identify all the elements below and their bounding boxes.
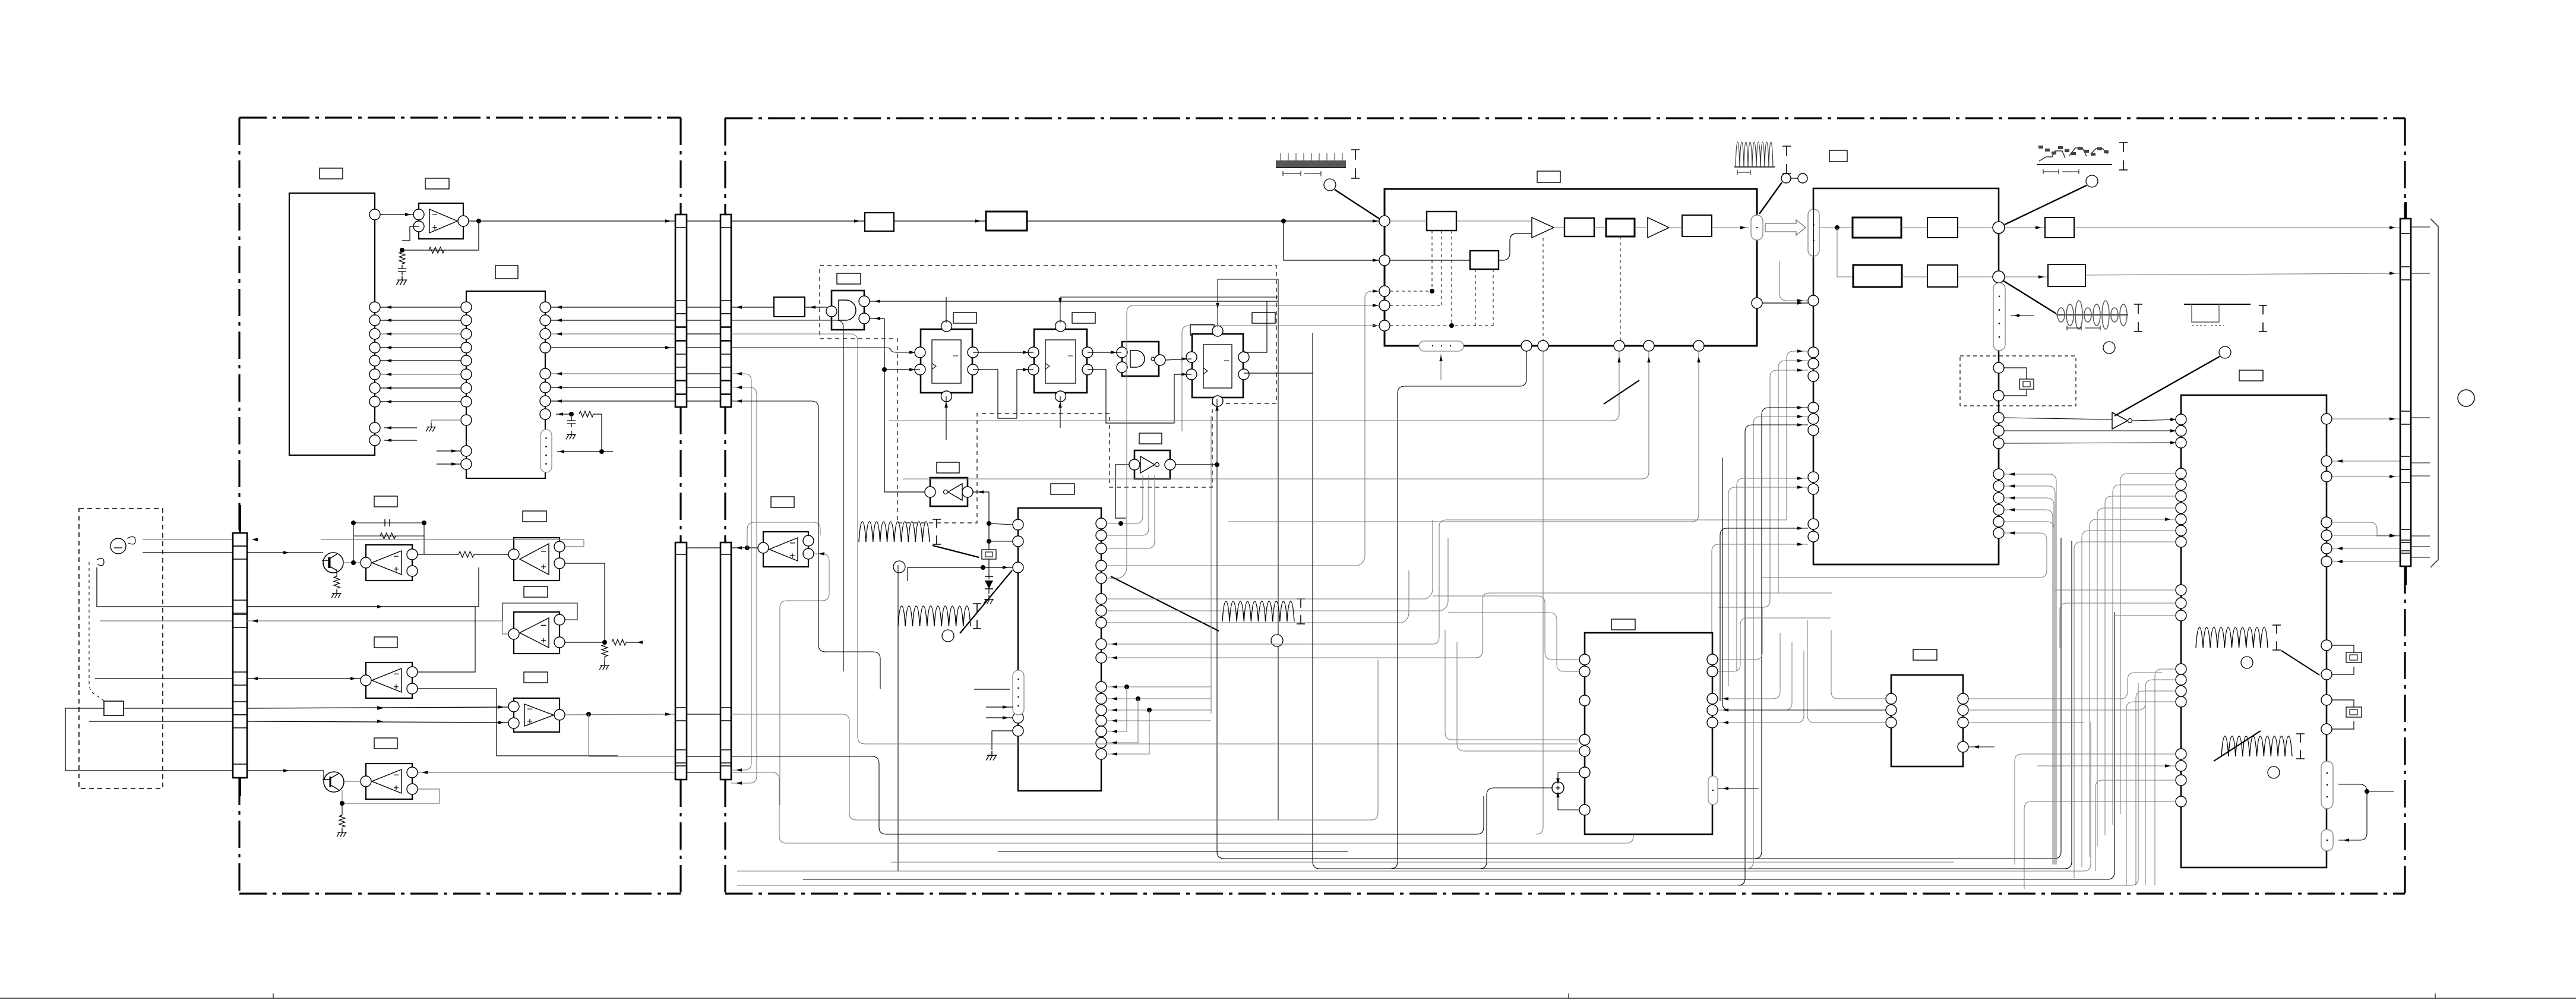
- wire U2a out: [469, 220, 675, 222]
- resistor R3: [399, 252, 405, 264]
- label U6: [1139, 433, 1162, 444]
- pointer S1: [933, 545, 979, 557]
- left block border left: [238, 118, 240, 894]
- label U3b: [524, 672, 548, 683]
- junction J1: [1993, 222, 2005, 234]
- wire d ff1: [909, 351, 915, 354]
- label FF1: [953, 313, 976, 323]
- wire j2 h6: [2005, 276, 2048, 277]
- dashed logic outline: [820, 266, 1276, 523]
- feedback trunk: [1278, 279, 1279, 820]
- IC3 pill stub: [974, 689, 1010, 690]
- IC4 pill feed: [1440, 354, 1442, 380]
- wire h2 j1: [1958, 227, 1993, 228]
- bars gap wires lower: [687, 547, 720, 548]
- wire r4 out: [1712, 227, 1749, 228]
- label G1: [837, 273, 861, 284]
- junction riser mid: [1998, 234, 1999, 271]
- wire U7 in: [731, 547, 758, 548]
- IC7 pill wire: [1718, 788, 1759, 789]
- wire p947 long: [1107, 291, 1379, 566]
- U2a feedback: [402, 221, 479, 250]
- U3a fb loop: [502, 603, 577, 634]
- trunk l6: [803, 612, 2114, 879]
- Q2 emitter resistor: [342, 803, 343, 815]
- IC5 left pill: [1808, 209, 1819, 256]
- IC2 gnd pin wire: [431, 420, 461, 423]
- wire head shield: [97, 567, 233, 607]
- right block border right: [2404, 118, 2406, 894]
- crystal X3: [2332, 645, 2354, 674]
- pointer W1: [1335, 190, 1379, 219]
- flip-flop FF3: [1192, 334, 1243, 398]
- trunk l7: [737, 683, 2138, 885]
- IC3 stub in2: [986, 717, 1013, 718]
- U4a out wires: [247, 607, 475, 672]
- ground g2: [567, 431, 576, 435]
- IC8 pins right: [1958, 693, 1968, 704]
- IC5 pins left: [1808, 295, 1819, 306]
- waveform W3: [2037, 164, 2112, 165]
- row feeds down7: [731, 401, 880, 689]
- pointer IC4pin: [1604, 380, 1639, 404]
- wire head to connector hot: [143, 539, 233, 540]
- trunk l2: [731, 756, 1484, 834]
- op-amp U3b: [514, 698, 560, 732]
- IC6 left feeds B: [2120, 474, 2176, 814]
- wire 1142 row: [247, 678, 361, 679]
- box IC4 r2: [1564, 218, 1594, 236]
- IC5 feed g: [1737, 478, 1808, 671]
- IC5 col pins: [1993, 412, 2004, 423]
- AND gate G1: [832, 291, 864, 330]
- trunk l8: [998, 851, 1348, 852]
- cassette dashed box: [79, 509, 163, 788]
- IC7 feed 1130: [1448, 613, 1579, 671]
- connector CN3a: [675, 542, 687, 780]
- wire ff3 set: [1218, 279, 1278, 327]
- IC6 left feeds D: [2155, 669, 2176, 885]
- wire p1084: [1107, 520, 1787, 644]
- inverter U8: [2112, 412, 2128, 429]
- U4b pins: [361, 776, 371, 787]
- IC3 box: [1018, 508, 1101, 791]
- U1a fb loop: [353, 523, 424, 563]
- col feed 878: [2004, 522, 2054, 851]
- bars gap wires upper: [687, 220, 720, 222]
- wire ff1 q ff2: [973, 352, 1033, 353]
- IC7 out 1110: [1718, 607, 1762, 660]
- box H6: [2048, 264, 2085, 286]
- R4 corner: [557, 414, 613, 452]
- pointer S4: [2281, 651, 2319, 675]
- box H2: [1927, 217, 1958, 238]
- wire G1 out: [731, 307, 774, 308]
- IC7 pill: [1708, 776, 1718, 805]
- connector CN2a: [675, 214, 687, 407]
- wire in548: [1182, 326, 1379, 431]
- IC8 pins left: [1886, 693, 1897, 704]
- diode D1: [988, 576, 990, 594]
- IC3 pill: [1013, 670, 1024, 715]
- wire h4 h5: [1902, 276, 1927, 277]
- IC7 feed 1110: [1433, 596, 1579, 660]
- label U5: [937, 462, 959, 473]
- IC4 pins left: [1379, 216, 1390, 226]
- wire reel sense: [95, 678, 233, 679]
- label G2: [1190, 324, 1214, 335]
- right block border bottom: [725, 892, 2405, 894]
- IC3 pins left: [1013, 519, 1023, 530]
- inverter U6: [1134, 450, 1170, 479]
- IC6 pins left: [2176, 414, 2186, 425]
- IC5 feed j: [1712, 544, 1808, 716]
- wire col 760: [2004, 443, 2181, 443]
- box IC4 r4: [1682, 215, 1712, 236]
- connector CN4: [2400, 219, 2411, 566]
- IC4 pill bottom: [1419, 341, 1464, 351]
- resistor R5 fb: [380, 533, 396, 539]
- CN1 stub bottom: [239, 778, 241, 796]
- right block border top: [725, 117, 2405, 119]
- IC4 pins bottom: [1521, 340, 1532, 351]
- row feeds down2: [731, 320, 843, 671]
- waveform W5: [2184, 304, 2251, 305]
- waveform W4: [2056, 314, 2128, 316]
- ground g1: [397, 276, 407, 280]
- U2a pins: [413, 209, 424, 220]
- U2b pins: [508, 549, 519, 560]
- testpoint S3: [1271, 635, 1283, 646]
- amp A1: [1532, 217, 1554, 238]
- trunk l5: [737, 722, 2091, 871]
- label U7: [771, 497, 794, 507]
- inverter U5: [930, 478, 968, 506]
- right block border left: [724, 118, 726, 894]
- wire U6 in riser: [1115, 465, 1129, 518]
- sum wires: [1480, 772, 1579, 869]
- IC7 out 1130: [1718, 618, 1831, 671]
- IC8 stub: [1968, 746, 1995, 747]
- wire col 736: [2004, 430, 2181, 431]
- wire clk ff1: [884, 369, 920, 370]
- trunk s2: [897, 565, 899, 871]
- IC6 right wires cn: [2332, 419, 2400, 561]
- box H3: [2045, 217, 2074, 238]
- IC1 stub pins: [384, 428, 417, 440]
- IC6 left feeds C: [2055, 590, 2176, 648]
- label IC6: [2239, 370, 2263, 381]
- IC5 feed a: [1787, 351, 1808, 520]
- pointer W3: [2005, 185, 2087, 225]
- label IC3: [1051, 484, 1074, 494]
- pointer S3: [1111, 576, 1219, 631]
- IC8 box: [1891, 675, 1963, 766]
- op-amp U3a: [514, 612, 560, 654]
- label IC2: [495, 266, 518, 279]
- wire G1 in2: [870, 318, 884, 319]
- IC4 box: [1385, 189, 1757, 346]
- IC4 pin arrows: [1373, 289, 1379, 293]
- IC5 top link: [1813, 188, 1999, 256]
- trunk l1: [731, 660, 1378, 820]
- IC6 pill1: [2321, 761, 2333, 809]
- wire p1003: [1107, 520, 1433, 599]
- IC3 harness bundle: [1107, 416, 1211, 721]
- IC4 out pill: [1751, 215, 1763, 240]
- wire fb net: [565, 563, 605, 641]
- left block border right: [679, 118, 681, 894]
- IC2 bus wires: [380, 307, 461, 308]
- label IC4: [1537, 171, 1560, 182]
- U4a pins: [361, 675, 371, 686]
- wire g2 in2: [1121, 367, 1174, 423]
- sum node: [1552, 782, 1564, 794]
- label IC5: [1829, 150, 1847, 162]
- label U2b: [523, 511, 546, 522]
- IC5 feed 591: [1787, 219, 1808, 351]
- IC4 dashed r5: [1475, 269, 1493, 326]
- IC5 feed f: [1738, 425, 1808, 885]
- wire u8 out: [2132, 419, 2181, 421]
- resistor R8: [612, 639, 626, 645]
- IC3 stub in1: [986, 706, 1013, 708]
- IC7 box: [1585, 633, 1712, 834]
- crystal X4: [2332, 700, 2354, 729]
- wire U2a plus in: [402, 226, 419, 241]
- testpoint W2 pair: [1781, 173, 1791, 183]
- label U4a: [374, 637, 397, 648]
- IC8 feeds: [1807, 620, 1886, 723]
- IC4 right pin: [1752, 298, 1762, 308]
- IC2 right bus: [551, 307, 675, 308]
- wire U5 out down: [973, 492, 989, 523]
- wire R6 to U2b: [474, 554, 508, 555]
- op-amp U2b: [514, 538, 560, 581]
- row2 riser: [1837, 228, 1853, 277]
- IC3 harness drop3: [1107, 710, 1149, 754]
- IC7 feed 1264: [1457, 642, 1579, 751]
- row1 y383: [1819, 227, 1853, 228]
- label Q1: [374, 496, 397, 507]
- U3b out: [565, 714, 675, 715]
- testpoint S4: [2241, 657, 2253, 668]
- wire p1107: [1107, 593, 1832, 658]
- IC1 pins right: [369, 209, 380, 220]
- wire p967 stub: [1107, 305, 1379, 578]
- head jack circle: [110, 538, 126, 554]
- wire U6 out: [1175, 464, 1217, 465]
- wire G1 in1 long: [870, 301, 1278, 302]
- capacitor C4 fb: [385, 519, 390, 526]
- U3b pins: [508, 701, 519, 712]
- link arrow big: [1765, 220, 1806, 235]
- wire U3a out: [565, 642, 605, 643]
- squiggle W-S4: [2196, 627, 2268, 648]
- wire u8 in: [2004, 418, 2112, 419]
- col feed 897: [1762, 533, 2047, 578]
- junction J2: [1993, 271, 2005, 283]
- wire motor drive: [124, 708, 233, 709]
- IC7 feed 1245: [1445, 630, 1579, 740]
- wire ff2 set: [1060, 297, 1278, 323]
- IC6 pins right: [2321, 414, 2332, 424]
- IC1 tuner: [289, 193, 375, 455]
- waveform W1: [1276, 160, 1346, 168]
- wire j1 h3: [2005, 227, 2045, 228]
- IC7 pins right: [1707, 654, 1718, 665]
- wire U5 in: [924, 491, 925, 493]
- CN4 stub bottom: [2404, 566, 2407, 585]
- wire row372 c: [1027, 220, 1379, 222]
- label IC7: [1611, 619, 1635, 630]
- head coil loop: [97, 537, 135, 566]
- testpoint S5: [2268, 766, 2280, 778]
- wire Q2 to U4b: [344, 781, 361, 782]
- IC3 harness drop2: [1107, 699, 1138, 743]
- squiggle W-S5: [2221, 736, 2292, 756]
- Q1 emitter resistor: [336, 569, 337, 576]
- box H4: [1853, 265, 1902, 287]
- connector CN3b: [720, 542, 731, 780]
- U4b fb: [342, 789, 440, 803]
- transistor Q1: [323, 553, 343, 573]
- IC2 in stubs: [437, 451, 461, 464]
- IC7 pins left: [1579, 654, 1590, 665]
- xtal pins: [1993, 362, 2004, 373]
- op-amp U1a: [366, 545, 412, 581]
- wire h6 cn: [2085, 273, 2400, 275]
- box IC4 r5: [1470, 251, 1499, 269]
- Q2 base wire: [247, 770, 324, 771]
- wire motor return: [89, 721, 233, 722]
- flip-flop FF2: [1034, 329, 1087, 393]
- wire 1214 row: [247, 721, 508, 723]
- pointer S5: [2214, 731, 2261, 761]
- wire IC1 to U2a: [380, 214, 413, 215]
- resistor R6: [459, 551, 474, 557]
- amp A2: [1648, 217, 1669, 238]
- label IC8: [1913, 649, 1937, 660]
- row feeds down4: [731, 348, 915, 352]
- IC3 gnd pin: [992, 731, 1013, 750]
- testpoint W4: [2103, 342, 2115, 354]
- IC5 feed i: [1720, 528, 1808, 701]
- IC5 feed e: [1746, 417, 1808, 869]
- box G1 out: [774, 297, 805, 317]
- xtal drop: [1998, 400, 1999, 423]
- wire ff2 clk: [1017, 370, 1033, 418]
- wire ff3 q2: [1244, 373, 1313, 374]
- IC6 pill wires: [2338, 784, 2367, 840]
- wire ff3 clk riser: [1174, 374, 1191, 423]
- crystal X1: [988, 523, 990, 576]
- transistor Q2: [324, 772, 344, 792]
- wire g2 out ff3: [1165, 359, 1191, 360]
- label U2a: [425, 178, 449, 189]
- trunk t2: [1313, 333, 2072, 869]
- IC5 feed 506: [1780, 261, 1808, 301]
- wire ff1 q2 down: [973, 370, 1017, 418]
- IC5 feed d: [1755, 408, 1808, 859]
- resistor R4: [579, 411, 593, 417]
- wire p1043: [1107, 570, 1409, 623]
- resistor R9 gnd: [602, 645, 608, 657]
- wire xtal row: [908, 567, 1013, 568]
- col feed bundle: [2004, 474, 2056, 865]
- IC6 box: [2181, 395, 2327, 867]
- wire h1 h2: [1901, 227, 1927, 228]
- junction pill drop: [1998, 351, 1999, 365]
- R8 stub: [626, 642, 639, 643]
- CN4 stub top: [2404, 202, 2407, 219]
- squiggle W-S2: [898, 606, 971, 626]
- pointer W4: [2003, 280, 2056, 314]
- wire A1 r2: [1554, 227, 1564, 228]
- wire return gray: [100, 620, 233, 622]
- trunk l3: [731, 772, 1633, 843]
- U3b fb: [589, 714, 675, 756]
- testpoint W1: [1324, 179, 1336, 191]
- left block border bottom: [239, 892, 681, 894]
- IC4 row2 wire: [1390, 260, 1470, 261]
- IC4 bottom drops: [1390, 351, 1526, 869]
- IC3 harness drop1: [1107, 687, 1127, 731]
- testpoint S1: [893, 561, 905, 573]
- box H5: [1927, 265, 1958, 287]
- wire r2 r3: [1594, 227, 1606, 228]
- wire U2b lower: [247, 567, 479, 607]
- Q1 base wire: [247, 552, 323, 553]
- row feeds down3: [731, 334, 1578, 744]
- footer rule: [0, 993, 2576, 998]
- box H1: [1853, 217, 1901, 238]
- label Q2: [374, 738, 397, 749]
- trunk l9: [891, 862, 1954, 863]
- capacitor C3: [567, 417, 576, 427]
- IC4 dashed rows: [1390, 291, 1493, 326]
- IC7 feed 1179: [822, 700, 1579, 701]
- wire ff2 bottom: [1060, 396, 1061, 428]
- testpoint W3: [2086, 175, 2098, 187]
- squiggle W-S3: [1222, 601, 1294, 622]
- box IC4 r3: [1606, 219, 1635, 236]
- left block border top: [239, 116, 681, 118]
- wire a2 r4: [1669, 227, 1682, 228]
- IC8 outs: [1968, 673, 2162, 723]
- IC8 feed mid: [1722, 458, 1886, 710]
- clock riser: [884, 318, 925, 492]
- connector CN2b: [720, 214, 731, 407]
- row feeds down6: [731, 387, 757, 783]
- CN4 right stubs: [2411, 226, 2430, 228]
- dashed xtal box: [1960, 356, 2076, 406]
- wire row372 a: [731, 220, 865, 222]
- trunk clk: [1217, 399, 2061, 859]
- wire ff1 bottom: [946, 396, 947, 440]
- CN1 stub top: [239, 505, 241, 533]
- wire motor gnd loop: [65, 708, 233, 771]
- crystal X2: [2004, 368, 2027, 396]
- wire U2b out up: [321, 540, 584, 547]
- box IC4 r1: [1427, 212, 1456, 231]
- resistor R2 feedback: [429, 247, 444, 253]
- U1a pins: [361, 557, 371, 568]
- IC5 pill2: [1993, 283, 2005, 351]
- U7 fb loop: [747, 522, 820, 548]
- IC5 feed h: [1728, 487, 1808, 686]
- op-amp U4a: [366, 663, 412, 698]
